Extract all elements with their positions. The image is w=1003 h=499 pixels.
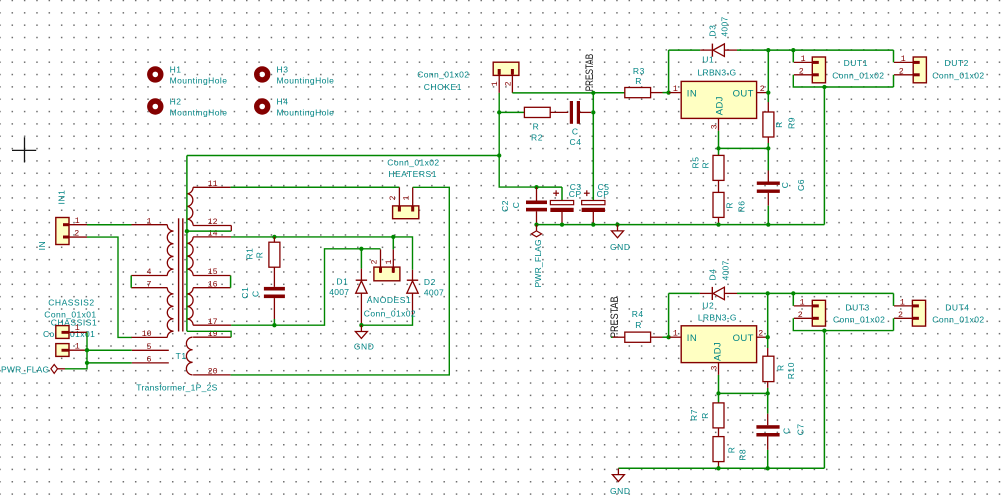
- junction U1 out: [766, 90, 770, 94]
- wire C7 top: [767, 393, 769, 413]
- junction ANODES1.1: [391, 235, 395, 239]
- wire adj junction: [718, 131, 720, 149]
- svg-text:1: 1: [673, 85, 678, 94]
- R2-C4 lead: [550, 111, 568, 113]
- DUT1 pin 1: [794, 61, 813, 63]
- svg-text:CP: CP: [569, 189, 582, 199]
- R5-R6 lead: [718, 180, 720, 192]
- svg-text:R8: R8: [738, 449, 748, 461]
- wire D3 cathode right: [737, 49, 793, 51]
- svg-text:1: 1: [403, 196, 412, 201]
- svg-text:Conn_01x02: Conn_01x02: [833, 314, 885, 324]
- R9 bottom lead: [767, 137, 769, 143]
- svg-text:IN: IN: [687, 333, 697, 344]
- diode D4: [700, 287, 737, 300]
- junction C4 right: [591, 110, 595, 114]
- wire DUT pin2 bus: [793, 75, 893, 87]
- svg-text:2: 2: [798, 311, 803, 320]
- wire U2 in up: [668, 293, 670, 337]
- svg-text:7: 7: [147, 280, 152, 289]
- svg-text:4007: 4007: [719, 16, 729, 36]
- svg-text:2: 2: [74, 229, 79, 238]
- C5 lead bottom: [592, 212, 594, 225]
- T1 pin 19: [193, 336, 231, 338]
- junction DUT34 bus: [822, 328, 826, 332]
- svg-text:R: R: [635, 76, 642, 86]
- DUT2 pin 1: [894, 61, 913, 63]
- svg-text:IN1: IN1: [57, 190, 67, 205]
- svg-text:5: 5: [147, 343, 152, 352]
- C6 bottom lead: [767, 193, 769, 206]
- T1 pin 12: [193, 225, 231, 227]
- svg-text:1: 1: [801, 55, 806, 64]
- junction U1 in: [666, 90, 670, 94]
- T1 pin 10: [132, 336, 168, 338]
- mounting hole H3: [257, 69, 268, 80]
- U1 pin 1: [669, 92, 682, 94]
- svg-text:4007: 4007: [721, 260, 731, 280]
- T1 secondary winding 11-12: [187, 187, 193, 225]
- svg-text:20: 20: [208, 368, 218, 377]
- junction DUT bus: [822, 85, 826, 89]
- power flag PWR_FLAG lower: [531, 225, 541, 237]
- R6 bottom lead: [718, 217, 720, 224]
- junction D1 top: [359, 247, 363, 251]
- svg-text:3: 3: [710, 124, 719, 129]
- wire DUT4 pin1 drop: [893, 293, 895, 306]
- U2 pin 3: [718, 363, 720, 375]
- svg-text:10: 10: [142, 330, 152, 339]
- svg-text:MountingHole: MountingHole: [170, 107, 228, 117]
- junction DUT1 in: [791, 48, 795, 52]
- DUT3 pin 2: [794, 317, 813, 319]
- T1 pin 20: [193, 374, 231, 376]
- resistor R1 body: [269, 242, 280, 267]
- resistor R5 body: [713, 155, 724, 180]
- wire DUT2 pin2 drop: [893, 75, 895, 87]
- svg-text:GND: GND: [610, 486, 631, 496]
- svg-text:CHASSIS2: CHASSIS2: [48, 298, 94, 308]
- svg-text:D3: D3: [708, 25, 718, 37]
- DUT4 pin 2: [894, 317, 912, 319]
- svg-text:R: R: [725, 202, 735, 209]
- svg-text:Conn_01x02: Conn_01x02: [932, 71, 984, 81]
- junction chassis1: [85, 348, 89, 352]
- junction D3 out: [766, 48, 770, 52]
- IN1 pin 2: [63, 236, 87, 238]
- connector CHOKE1 body: [493, 62, 519, 75]
- svg-text:C6: C6: [796, 179, 806, 191]
- U2 pin 1: [669, 336, 682, 338]
- wire DUT bus down: [823, 87, 825, 225]
- junction GND upper: [615, 222, 619, 226]
- svg-text:Conn_01x02: Conn_01x02: [932, 314, 984, 324]
- svg-text:2: 2: [370, 260, 379, 265]
- capacitor C3 (polarized): [550, 201, 573, 213]
- wire HEATERS1.1 to T1.20: [231, 187, 450, 375]
- wire out bus lower: [793, 292, 893, 294]
- svg-text:1: 1: [75, 324, 80, 333]
- junction GND anodes: [359, 323, 363, 327]
- wire secondary tap vertical: [186, 156, 188, 332]
- svg-text:IN: IN: [687, 89, 697, 100]
- T1 primary winding lower: [167, 288, 173, 338]
- svg-text:LRBN3-G: LRBN3-G: [698, 68, 737, 78]
- svg-text:PRESTAB: PRESTAB: [584, 54, 596, 92]
- svg-text:1: 1: [147, 217, 152, 226]
- CHOKE1 pin 2: [511, 69, 513, 93]
- wire T1.5: [87, 349, 132, 351]
- R7 top lead: [718, 393, 720, 403]
- svg-text:1: 1: [75, 217, 80, 226]
- svg-text:ANODES1: ANODES1: [367, 295, 411, 305]
- svg-text:R9: R9: [787, 117, 797, 129]
- svg-text:Conn_01x02: Conn_01x02: [417, 69, 469, 79]
- junction C6 bottom: [766, 222, 770, 226]
- U1 pin 3: [718, 118, 720, 130]
- wire DUT2 pin1 drop: [893, 50, 895, 62]
- HEATERS1 pin 2: [398, 187, 400, 211]
- wire out bus top: [793, 49, 893, 51]
- connector DUT2 body: [913, 57, 926, 83]
- svg-text:R: R: [700, 162, 710, 169]
- svg-text:R5: R5: [690, 157, 700, 169]
- wire DUT lower bus up: [823, 331, 825, 469]
- svg-text:OUT: OUT: [733, 89, 754, 100]
- svg-text:OUT: OUT: [733, 333, 754, 344]
- wire C5 top: [592, 199, 594, 201]
- junction C5 bottom: [591, 222, 595, 226]
- ground lower: [612, 468, 624, 481]
- power flag PWR_FLAG left: [51, 365, 65, 374]
- DUT3 pin 1: [794, 305, 813, 307]
- wire bridge T1.15-16: [230, 276, 232, 288]
- svg-text:DUT1: DUT1: [844, 58, 868, 68]
- resistor R1 lead: [273, 237, 275, 242]
- junction heater line: [497, 153, 501, 157]
- U1 pin 2: [757, 92, 769, 94]
- svg-text:MountingHole: MountingHole: [170, 75, 228, 85]
- svg-text:PWR_FLAG: PWR_FLAG: [533, 239, 543, 287]
- op-amp U1 body (LRBN3-G): [681, 81, 756, 118]
- svg-text:ADJ: ADJ: [713, 342, 724, 361]
- resistor R1 lead bottom: [273, 267, 275, 287]
- capacitor C5 (polarized): [582, 201, 605, 213]
- svg-text:R: R: [533, 122, 540, 132]
- svg-text:D4: D4: [708, 269, 718, 281]
- wire R2 left: [499, 111, 524, 113]
- svg-text:R: R: [700, 412, 710, 419]
- wire T1.14 net: [231, 237, 413, 270]
- op-amp U2 body (LRBN3-G): [681, 326, 756, 363]
- svg-text:R: R: [255, 251, 265, 258]
- T1 pin 6: [132, 362, 169, 364]
- svg-text:R10: R10: [786, 362, 796, 379]
- capacitor C4: [570, 101, 573, 124]
- svg-text:PWR_FLAG: PWR_FLAG: [1, 364, 49, 374]
- C7 bottom lead: [767, 437, 769, 450]
- ANODES1 pin 2: [380, 249, 382, 273]
- svg-text:MountingHole: MountingHole: [277, 107, 335, 117]
- wire IN1.1 to T1.1: [87, 224, 132, 226]
- T1 pin 11: [193, 186, 231, 188]
- svg-text:R: R: [635, 320, 642, 330]
- wire IN1.2 to T1.10: [87, 237, 132, 337]
- C4 right lead: [580, 111, 591, 113]
- junction C2 top: [534, 185, 538, 189]
- junction R2 left: [497, 110, 501, 114]
- T1 pin 1: [132, 224, 168, 226]
- resistor R10 body: [763, 356, 774, 381]
- connector DUT3 body: [812, 300, 825, 326]
- T1 pin 7: [131, 287, 167, 289]
- svg-text:D1: D1: [336, 277, 348, 287]
- svg-text:R3: R3: [633, 66, 645, 76]
- ground filter bank: [612, 225, 624, 238]
- mounting hole H4: [257, 101, 268, 112]
- connector CHASSIS2 body: [56, 326, 69, 339]
- svg-text:IN: IN: [37, 241, 47, 251]
- wire U1 out down: [767, 50, 769, 102]
- junction adj right lower: [766, 391, 770, 395]
- svg-text:C: C: [780, 181, 790, 188]
- connector ANODES1 body: [374, 267, 400, 281]
- wire wrap T1.19: [187, 331, 231, 337]
- svg-text:PRESTAB: PRESTAB: [609, 297, 621, 339]
- T1 pin 17: [193, 324, 231, 326]
- junction C2 bottom: [534, 222, 538, 226]
- R4 left lead: [613, 336, 625, 338]
- CHASSIS2 pin 1: [62, 331, 88, 333]
- svg-text:GND: GND: [610, 242, 631, 252]
- junction adj right: [766, 146, 770, 150]
- svg-text:HEATERS1: HEATERS1: [388, 169, 437, 179]
- T1 pin 14: [193, 236, 231, 238]
- HEATERS1 pin 1: [412, 187, 414, 211]
- wire prestab down: [592, 93, 594, 200]
- svg-text:C7: C7: [795, 423, 805, 435]
- R3 right lead: [651, 92, 663, 94]
- T1 primary winding upper: [167, 225, 173, 276]
- svg-text:15: 15: [208, 268, 218, 277]
- svg-text:H2: H2: [170, 97, 182, 107]
- junction D4 out: [766, 291, 770, 295]
- svg-text:2: 2: [799, 67, 804, 76]
- capacitor C6: [757, 182, 780, 193]
- junction C3 bottom: [560, 222, 564, 226]
- svg-text:LRBN3-G: LRBN3-G: [698, 313, 737, 323]
- resistor R6 body: [713, 192, 724, 217]
- mounting hole H2: [150, 101, 161, 112]
- junction R6 bottom: [716, 222, 720, 226]
- wire T1.11 to HEATERS1.2: [231, 186, 400, 188]
- svg-text:R: R: [774, 121, 784, 128]
- svg-text:H1: H1: [170, 65, 182, 75]
- svg-text:CHOKE1: CHOKE1: [424, 82, 462, 92]
- svg-text:2: 2: [504, 81, 513, 86]
- svg-text:DUT3: DUT3: [845, 303, 869, 313]
- T1 pin 4: [131, 275, 167, 277]
- resistor R7 body: [713, 403, 724, 428]
- CHASSIS1 pin 1: [62, 349, 88, 351]
- svg-text:T1: T1: [176, 351, 187, 361]
- wire C6 top: [767, 148, 769, 170]
- wire DUT3 pin1 drop: [792, 293, 794, 306]
- wire D4 cathode right: [737, 292, 793, 294]
- junction C1 bottom: [272, 323, 276, 327]
- svg-text:17: 17: [208, 318, 218, 327]
- svg-text:MountingHole: MountingHole: [277, 75, 335, 85]
- svg-text:C: C: [511, 202, 521, 209]
- T1 secondary winding 14-15: [187, 237, 193, 276]
- svg-text:H4: H4: [277, 97, 289, 107]
- wire U2 out down: [767, 293, 769, 348]
- svg-text:GND: GND: [354, 341, 375, 351]
- wire bank top: [537, 186, 563, 188]
- wire T1.6: [87, 362, 132, 364]
- svg-text:U2: U2: [702, 301, 714, 311]
- wire choke1 down: [499, 93, 536, 187]
- wire DUT1 pin1 drop: [792, 50, 794, 62]
- svg-text:2: 2: [758, 330, 763, 339]
- R7-R8 lead: [718, 428, 720, 437]
- T1 pin 5: [132, 349, 169, 351]
- svg-text:ADJ: ADJ: [714, 96, 725, 115]
- C2 lead bottom: [536, 211, 538, 224]
- svg-text:11: 11: [208, 180, 218, 189]
- R10 bottom lead: [767, 382, 769, 388]
- wire ground bus lower: [618, 467, 824, 469]
- mounting hole H1: [150, 69, 161, 80]
- svg-text:Conn_01x02: Conn_01x02: [832, 71, 884, 81]
- junction prestab corner: [591, 91, 595, 95]
- diode D3: [700, 44, 737, 57]
- svg-text:1: 1: [900, 299, 905, 308]
- wire DUT34 pin2 bus: [793, 318, 893, 330]
- svg-text:3: 3: [710, 366, 719, 371]
- resistor R2 body: [524, 107, 550, 117]
- wire adj junction lower: [718, 375, 720, 394]
- U2 pin 2: [757, 336, 768, 338]
- svg-text:R: R: [727, 447, 737, 454]
- connector DUT4 body: [912, 300, 925, 326]
- svg-text:1: 1: [673, 330, 678, 339]
- svg-text:Conn_01x02: Conn_01x02: [364, 308, 416, 318]
- ANODES1 pin 1: [392, 249, 394, 273]
- svg-text:12: 12: [208, 218, 218, 227]
- wire ground bus upper: [537, 224, 825, 226]
- capacitor C7: [756, 425, 779, 436]
- T1 secondary winding 16-17: [187, 288, 193, 326]
- wire DUT4 pin2 drop: [893, 318, 895, 330]
- svg-text:2: 2: [760, 85, 765, 94]
- svg-text:R: R: [775, 364, 785, 371]
- svg-text:4007: 4007: [424, 287, 444, 297]
- IN1 pin 1: [63, 224, 87, 226]
- junction R1 top: [272, 235, 276, 239]
- T1 core: [178, 218, 180, 331]
- DUT4 pin 1: [894, 305, 912, 307]
- junction adj left lower: [716, 391, 720, 395]
- junction adj left: [716, 146, 720, 150]
- R5 top lead: [718, 148, 720, 155]
- svg-text:R2: R2: [531, 132, 543, 142]
- junction U2 in: [666, 335, 670, 339]
- wire prestab stub: [611, 336, 613, 338]
- wire bridge T1.4-T1.7: [130, 276, 132, 288]
- svg-text:2: 2: [899, 67, 904, 76]
- connector HEATERS1 body: [393, 206, 419, 219]
- R4 right lead: [651, 336, 663, 338]
- wire U1 in up: [668, 50, 670, 93]
- svg-text:Conn_01x02: Conn_01x02: [387, 157, 439, 167]
- junction U2 out: [766, 335, 770, 339]
- C5 plus: [584, 192, 590, 194]
- T1 pin 15: [193, 275, 231, 277]
- resistor R8 body: [713, 437, 724, 462]
- C3 plus: [553, 192, 559, 194]
- C3 lead bottom: [561, 212, 563, 225]
- svg-text:R7: R7: [689, 409, 699, 421]
- svg-text:C1: C1: [240, 287, 250, 299]
- svg-text:1: 1: [491, 81, 500, 86]
- svg-text:Transformer_1P_2S: Transformer_1P_2S: [136, 382, 217, 392]
- connector CHASSIS1 body: [56, 344, 69, 357]
- wire choke2 right: [512, 92, 593, 94]
- R10 top lead: [767, 348, 769, 356]
- wire D1-D2 cathodes: [361, 315, 412, 325]
- wire heater feed: [187, 155, 499, 157]
- svg-text:R4: R4: [632, 309, 644, 319]
- svg-text:C: C: [781, 427, 791, 434]
- svg-text:C4: C4: [570, 137, 582, 147]
- svg-text:DUT2: DUT2: [945, 58, 969, 68]
- resistor R9 body: [763, 112, 774, 137]
- R8 bottom lead: [718, 462, 720, 469]
- junction R8 bottom: [716, 466, 720, 470]
- svg-text:1: 1: [385, 260, 394, 265]
- svg-text:1: 1: [901, 55, 906, 64]
- T1 pin 16: [193, 287, 231, 289]
- capacitor C1: [264, 287, 285, 298]
- svg-text:R6: R6: [737, 200, 747, 212]
- wire T1.17 net: [231, 249, 380, 325]
- junction DUT3 in: [791, 291, 795, 295]
- capacitor C2: [526, 201, 547, 212]
- junction tap: [185, 229, 189, 233]
- svg-text:C2: C2: [500, 200, 510, 212]
- resistor R3 body: [625, 88, 651, 98]
- T1 secondary winding 19-20: [186, 337, 192, 375]
- svg-text:1: 1: [800, 299, 805, 308]
- CHOKE1 pin 1: [498, 69, 500, 93]
- wire chassis vertical: [65, 332, 87, 369]
- svg-text:2: 2: [898, 311, 903, 320]
- svg-text:C: C: [572, 126, 579, 136]
- connector DUT1 body: [812, 57, 825, 83]
- svg-text:2: 2: [389, 196, 398, 201]
- ground below D1: [355, 325, 367, 338]
- svg-text:H3: H3: [277, 65, 289, 75]
- wire R3 left: [593, 92, 625, 94]
- DUT2 pin 2: [894, 74, 913, 76]
- resistor R4 body: [625, 332, 651, 342]
- junction pin6: [85, 361, 89, 365]
- sheet origin crosshair: [12, 137, 36, 162]
- svg-text:D2: D2: [424, 277, 436, 287]
- svg-text:4007: 4007: [329, 287, 349, 297]
- svg-text:C: C: [251, 290, 261, 297]
